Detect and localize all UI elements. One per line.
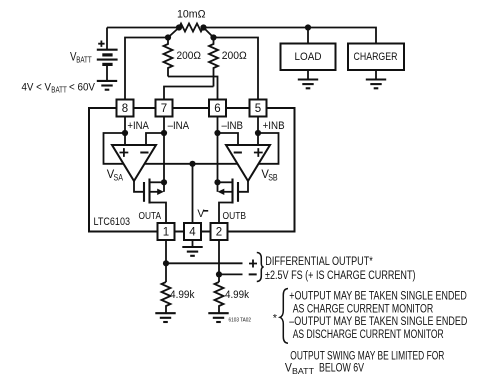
node +INA — [122, 130, 128, 136]
svg-text:4V < V: 4V < V — [22, 82, 52, 94]
wire V+ supply bracket B — [258, 133, 279, 164]
svg-text:V: V — [197, 208, 205, 220]
svg-text:5: 5 — [255, 103, 261, 115]
ground (battery) — [97, 81, 117, 90]
ground (CHARGER) — [366, 80, 386, 89]
ground (pin 4) — [182, 240, 202, 256]
note differential output — [265, 256, 416, 282]
svg-text:6: 6 — [214, 103, 220, 115]
wire V+ supply bracket A — [104, 133, 126, 164]
note single-ended outputs — [289, 291, 467, 341]
svg-text:< 60V: < 60V — [69, 82, 96, 94]
wire + output — [166, 262, 243, 264]
label 4V < VBATT < 60V — [22, 82, 96, 95]
node source B / -INB — [214, 179, 220, 185]
svg-text:DIFFERENTIAL OUTPUT*: DIFFERENTIAL OUTPUT* — [265, 256, 373, 268]
ground (R2) — [208, 313, 228, 322]
wire top rail left — [107, 27, 179, 29]
node 200ohm left top — [165, 34, 171, 40]
wire 200R to pin7 — [164, 87, 214, 100]
label - output — [249, 273, 257, 275]
note output swing — [285, 350, 444, 376]
svg-text:*: * — [273, 313, 278, 325]
svg-text:+INB: +INB — [263, 120, 285, 132]
svg-text:OUTB: OUTB — [223, 210, 247, 222]
CHARGER block — [348, 44, 404, 80]
wire -inB hook — [218, 133, 239, 145]
svg-text:200Ω: 200Ω — [222, 50, 247, 62]
svg-text:4.99k: 4.99k — [225, 289, 249, 301]
wire pin2 output — [218, 240, 220, 282]
wire pin5 to +inB — [257, 117, 259, 146]
resistor R2 4.99k — [215, 282, 250, 313]
wire pin1 output — [165, 240, 167, 282]
svg-text:10mΩ: 10mΩ — [177, 9, 206, 21]
svg-text:OUTA: OUTA — [139, 210, 162, 222]
battery VBATT — [97, 28, 118, 81]
label V- (pin4) — [197, 208, 208, 220]
wire top rail right — [204, 28, 377, 44]
wire pin7 -INA vertical — [163, 117, 165, 183]
node source A / -INA — [161, 179, 167, 185]
svg-text:AS CHARGE CURRENT MONITOR: AS CHARGE CURRENT MONITOR — [293, 303, 434, 315]
node -INA — [161, 130, 167, 136]
op-amp U1A VSA — [112, 145, 156, 181]
svg-text:–OUTPUT MAY BE TAKEN SINGLE EN: –OUTPUT MAY BE TAKEN SINGLE ENDED — [289, 316, 467, 328]
wire second row right (pin5 sense) — [204, 28, 259, 100]
svg-text:LOAD: LOAD — [295, 51, 322, 63]
label VBATT — [70, 51, 92, 64]
pin 1 — [158, 223, 175, 240]
transistor QA — [134, 179, 166, 224]
node OUTB — [216, 271, 222, 277]
pin 2 — [211, 223, 228, 240]
node 200ohm right top — [210, 34, 216, 40]
wire second row left (pin8 sense) — [125, 28, 179, 100]
svg-text:+INA: +INA — [127, 120, 149, 132]
wire V- rail — [144, 163, 237, 165]
svg-text:BATT: BATT — [76, 55, 92, 65]
svg-text:BELOW 6V: BELOW 6V — [319, 363, 364, 375]
ground (LOAD) — [298, 80, 318, 89]
node load tap — [305, 24, 311, 30]
wire V- riser to pin4 — [192, 164, 194, 223]
wire pin6 -INB vertical — [217, 117, 219, 183]
LOAD block — [281, 28, 336, 80]
svg-text:+OUTPUT MAY BE TAKEN SINGLE EN: +OUTPUT MAY BE TAKEN SINGLE ENDED — [289, 291, 467, 303]
resistor R1 4.99k — [162, 282, 195, 313]
svg-text:–INA: –INA — [168, 120, 190, 132]
label + output — [249, 260, 257, 268]
resistor 200Ω left — [164, 38, 202, 77]
label VSA — [107, 167, 123, 183]
node shunt right — [200, 24, 206, 30]
ground (R1) — [155, 313, 175, 322]
op-amp U1B VSB — [226, 145, 270, 181]
wire -inA hook — [146, 133, 164, 145]
svg-text:1: 1 — [163, 227, 169, 239]
wire 200L to pin6 — [168, 77, 218, 100]
label VSB — [261, 167, 277, 183]
svg-text:2: 2 — [216, 227, 222, 239]
node shunt left — [176, 24, 182, 30]
node +INB — [255, 130, 261, 136]
pin 6 — [209, 100, 226, 117]
node V- — [189, 161, 195, 167]
svg-text:LTC6103: LTC6103 — [94, 216, 131, 228]
shunt resistor 10mΩ — [179, 24, 204, 32]
svg-text:OUTPUT SWING MAY BE LIMITED FO: OUTPUT SWING MAY BE LIMITED FOR — [290, 350, 444, 362]
svg-text:–INB: –INB — [222, 120, 244, 132]
pin 5 — [250, 100, 267, 117]
svg-text:AS DISCHARGE CURRENT MONITOR: AS DISCHARGE CURRENT MONITOR — [293, 329, 444, 341]
node OUTA — [163, 260, 169, 266]
pin 4 — [184, 223, 201, 240]
brace single-ended note — [280, 289, 288, 344]
svg-text:BATT: BATT — [292, 366, 314, 376]
pin 7 — [156, 100, 173, 117]
brace differential output — [257, 253, 264, 282]
svg-text:SA: SA — [114, 173, 124, 183]
node -INB — [214, 130, 220, 136]
svg-text:6103 TA02: 6103 TA02 — [229, 318, 252, 324]
pin 8 — [117, 100, 134, 117]
resistor 200Ω right — [209, 38, 247, 87]
wire pin8 to +inA — [124, 117, 126, 146]
svg-text:CHARGER: CHARGER — [354, 51, 398, 63]
svg-text:±2.5V FS (+ IS CHARGE CURRENT): ±2.5V FS (+ IS CHARGE CURRENT) — [265, 270, 416, 282]
svg-text:4.99k: 4.99k — [170, 289, 195, 301]
svg-text:SB: SB — [268, 173, 278, 183]
svg-text:8: 8 — [122, 103, 128, 115]
svg-text:7: 7 — [161, 103, 167, 115]
svg-text:200Ω: 200Ω — [177, 50, 202, 62]
wire - output — [219, 273, 243, 275]
IC LTC6103 body — [89, 108, 295, 232]
svg-text:BATT: BATT — [51, 85, 67, 95]
transistor QB — [218, 179, 249, 224]
svg-text:4: 4 — [189, 227, 196, 239]
